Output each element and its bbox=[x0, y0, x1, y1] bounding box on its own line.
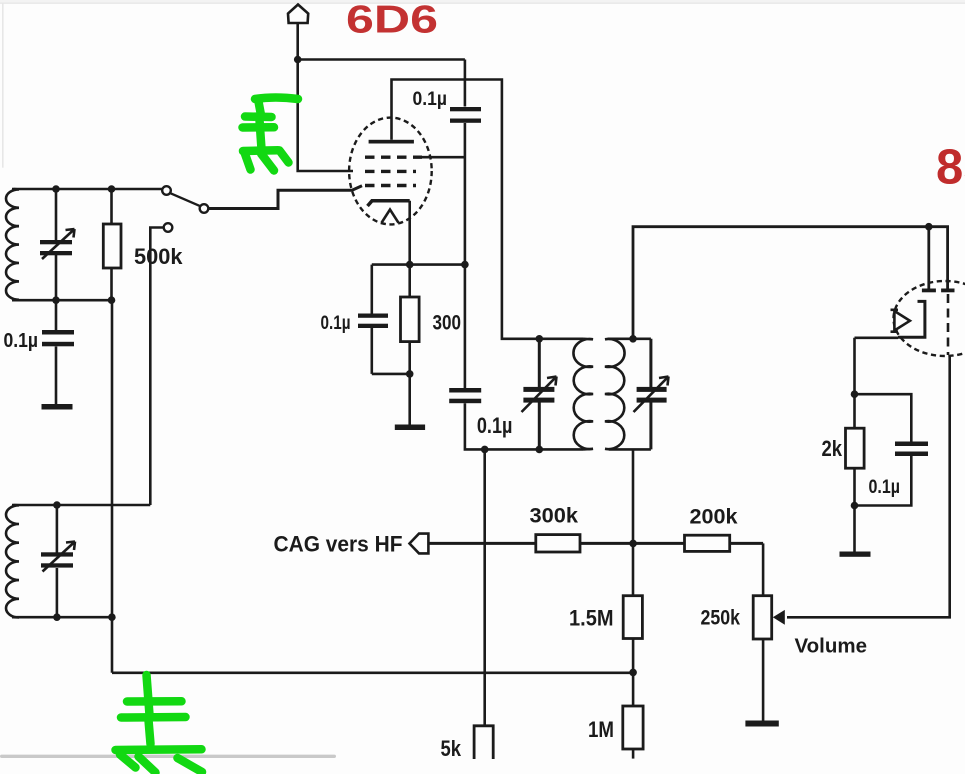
ground cathode bbox=[395, 425, 425, 431]
node cathode-left bbox=[406, 261, 414, 269]
wire pot top lead bbox=[762, 543, 765, 595]
trimmer cap secondary plates bbox=[637, 387, 667, 403]
capacitor 0.1u left branch bbox=[55, 300, 58, 404]
switch contact A bbox=[162, 186, 171, 195]
svg-text:0.1µ: 0.1µ bbox=[869, 477, 901, 498]
dashed inner electrode line U2 bbox=[947, 294, 950, 355]
svg-text:0.1µ: 0.1µ bbox=[4, 330, 39, 352]
value 0.1u IF bbox=[477, 413, 513, 438]
resistor 2k bbox=[846, 428, 865, 468]
svg-text:85: 85 bbox=[936, 141, 965, 195]
wire coupling 2 lower bbox=[465, 403, 583, 449]
capacitor cathode bypass 0.1u bbox=[358, 314, 388, 329]
value 250k bbox=[701, 607, 741, 630]
tuning cap C1 branch bbox=[55, 189, 58, 300]
node divider bus bbox=[629, 669, 637, 677]
wire 2k cap branch bottom bbox=[855, 456, 912, 506]
bottom gray line bbox=[0, 755, 336, 758]
grid g1 row bbox=[365, 155, 422, 158]
label 85 red bbox=[936, 141, 965, 195]
label CAG vers HF bbox=[274, 532, 403, 557]
wire anode lead bbox=[392, 80, 584, 339]
capacitor C-couple 0.1u top bbox=[450, 107, 481, 123]
svg-text:200k: 200k bbox=[690, 506, 738, 529]
value 0.1u cathode bbox=[321, 313, 351, 334]
wire coupling 2 upper bbox=[464, 265, 467, 388]
svg-text:1M: 1M bbox=[588, 717, 614, 742]
wire antenna down to grid2 bbox=[298, 23, 353, 171]
wire B+ bus to 2nd tube bbox=[633, 227, 948, 339]
value 0.1u top bbox=[413, 89, 448, 110]
node cathode-right bbox=[461, 261, 469, 269]
tuning arrow C2 bbox=[43, 542, 76, 572]
svg-text:6D6: 6D6 bbox=[346, 0, 438, 42]
svg-text:0.1µ: 0.1µ bbox=[477, 413, 513, 438]
grid g2 row bbox=[365, 170, 416, 173]
capacitor 0.1u diode load bbox=[895, 442, 928, 457]
switch arm bbox=[170, 193, 200, 206]
tube U2 envelope bbox=[894, 281, 965, 356]
resistor 300k bbox=[536, 535, 580, 552]
wire L2 top bbox=[12, 504, 150, 507]
wire left bypass branch bbox=[370, 265, 373, 374]
resistor 1.5M bbox=[623, 596, 642, 639]
svg-text:500k: 500k bbox=[134, 244, 183, 269]
capacitor 0.1u left plates bbox=[42, 330, 74, 346]
node secondary top bbox=[629, 335, 637, 343]
node L1 bottom res bbox=[108, 296, 116, 304]
wire top bus to coupling cap bbox=[298, 58, 465, 61]
cathode U1 bbox=[368, 201, 410, 206]
wire 1M bottom bbox=[632, 749, 635, 759]
diode plate bracket U2 bbox=[898, 301, 925, 337]
wire L2 bottom bbox=[12, 616, 112, 619]
tuning cap C1 plates bbox=[40, 240, 72, 255]
node CAG 1.5M bbox=[629, 540, 637, 548]
resistor 500k bbox=[103, 224, 121, 268]
antenna coil L1 bbox=[6, 189, 19, 300]
wire resistor 300 branch bottom bbox=[372, 342, 410, 374]
node L2 bottom cap bbox=[53, 613, 61, 621]
heater U1 bbox=[382, 210, 399, 223]
wire 2k cap branch top bbox=[855, 394, 912, 441]
switch contact C bbox=[164, 223, 173, 232]
diode cathode triangle U2 bbox=[891, 310, 910, 332]
anode plate U1 bbox=[369, 140, 414, 144]
cap contact bars tube 2 bbox=[922, 289, 955, 293]
value 200k bbox=[690, 506, 738, 529]
node L2 bottom main bbox=[108, 613, 116, 621]
green ground scribble top bbox=[243, 98, 299, 171]
node primary bottom bbox=[536, 446, 544, 454]
svg-text:0.1µ: 0.1µ bbox=[321, 313, 351, 334]
wire secondary top bbox=[609, 337, 651, 340]
top gray bar bbox=[0, 0, 965, 4]
label Volume bbox=[795, 636, 868, 658]
wire CAG bus bbox=[428, 542, 763, 545]
value 2k bbox=[822, 436, 843, 461]
svg-text:1.5M: 1.5M bbox=[569, 606, 614, 631]
tuning arrow C1 bbox=[42, 229, 75, 259]
value 0.1u left bbox=[4, 330, 39, 352]
wire 2k leads bbox=[853, 394, 856, 551]
node antenna bus bbox=[294, 56, 302, 64]
ground 2k bbox=[840, 552, 871, 557]
node 2k bottom bbox=[851, 502, 859, 510]
wire resistor 300 branch top bbox=[408, 265, 411, 297]
value 5k bbox=[441, 736, 462, 761]
wire switch to grid3 bbox=[208, 186, 362, 209]
capacitor 0.1u to IF bbox=[449, 388, 481, 403]
resistor 500k leads bbox=[110, 189, 113, 300]
wire AVC divider bbox=[632, 449, 635, 595]
wire left main vertical bbox=[111, 300, 114, 673]
potentiometer 250k bbox=[753, 596, 772, 639]
value 1.5M bbox=[569, 606, 614, 631]
svg-text:250k: 250k bbox=[701, 607, 741, 630]
tuning cap C2 plates bbox=[41, 552, 73, 567]
wire cathode down bbox=[408, 201, 411, 265]
wire volume feed from tube2 bbox=[787, 355, 950, 617]
wire to diode plate cap bbox=[927, 227, 930, 289]
svg-text:300k: 300k bbox=[530, 505, 579, 528]
tube U1 envelope (6D6) bbox=[349, 118, 432, 225]
ground pot bbox=[745, 721, 778, 727]
node B+ bbox=[925, 223, 933, 231]
node tap bbox=[481, 446, 489, 454]
tuning cap C2 branch bbox=[56, 505, 59, 617]
svg-text:CAG vers HF: CAG vers HF bbox=[274, 532, 403, 557]
wire contact C down bbox=[150, 228, 163, 506]
value 300k bbox=[530, 505, 579, 528]
node L1 res top bbox=[108, 185, 116, 193]
IF transformer T1 secondary coil bbox=[605, 339, 625, 450]
trimmer cap secondary branch bbox=[649, 339, 652, 450]
resistor 200k bbox=[685, 535, 730, 551]
node L1 cap top bbox=[52, 185, 60, 193]
wire cathode node horizontal bbox=[372, 263, 465, 266]
trimmer arrow secondary bbox=[634, 377, 669, 413]
CAG arrow bbox=[410, 534, 429, 554]
wire grid1 to coupling line bbox=[418, 156, 465, 159]
wire to ground 1 bbox=[408, 374, 411, 425]
value 300 bbox=[433, 312, 462, 335]
trimmer arrow primary bbox=[522, 377, 557, 413]
node primary top bbox=[536, 335, 544, 343]
wire coupling branch upper bbox=[464, 60, 467, 107]
trimmer cap primary plates bbox=[523, 387, 554, 403]
wire 1.5M to 1M bbox=[632, 639, 635, 707]
wiper arrow volume bbox=[773, 610, 785, 625]
green ground scribble bottom bbox=[116, 675, 203, 773]
wire coupling branch lower bbox=[464, 123, 467, 265]
label 6D6 bbox=[346, 0, 438, 42]
resistor 1M bbox=[623, 706, 643, 749]
svg-text:5k: 5k bbox=[441, 736, 462, 761]
switch contact B bbox=[200, 204, 209, 213]
faint left window edge bbox=[2, 4, 4, 168]
wire AVC tap down to 5k bbox=[483, 449, 486, 725]
value 0.1u diode bbox=[869, 477, 901, 498]
band coil L2 bbox=[6, 505, 19, 618]
node L2 cap top bbox=[53, 501, 61, 509]
trimmer cap primary branch bbox=[538, 339, 541, 450]
wire ground bus bottom bbox=[112, 671, 633, 674]
svg-text:300: 300 bbox=[433, 312, 462, 335]
value 1M bbox=[588, 717, 614, 742]
value 500k bbox=[134, 244, 183, 269]
wire pot bottom lead bbox=[762, 639, 765, 721]
wire input top bus bbox=[12, 188, 163, 191]
wire secondary bottom bbox=[609, 448, 651, 451]
svg-text:0.1µ: 0.1µ bbox=[413, 89, 448, 110]
node cathode ground bbox=[406, 370, 414, 378]
svg-text:Volume: Volume bbox=[795, 636, 868, 658]
antenna bbox=[288, 5, 308, 24]
svg-text:2k: 2k bbox=[822, 436, 843, 461]
IF transformer T1 primary coil bbox=[573, 339, 593, 450]
wire L1 bottom bbox=[12, 299, 112, 302]
node L1 bottom cap bbox=[52, 296, 60, 304]
resistor R300 bbox=[401, 297, 420, 342]
wire diode to 2k node bbox=[855, 338, 899, 394]
grid g3 row bbox=[365, 184, 416, 187]
node 2k top bbox=[851, 390, 859, 398]
resistor 5k bbox=[474, 726, 493, 759]
ground left bbox=[42, 404, 73, 410]
